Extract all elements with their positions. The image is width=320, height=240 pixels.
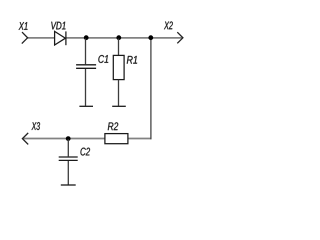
label X1 xyxy=(19,22,28,30)
label VD1 xyxy=(51,22,65,30)
diode VD1 xyxy=(55,31,66,45)
node junction dot C (riser tap) xyxy=(148,35,153,40)
wire: C1 branch upper xyxy=(85,39,87,65)
open end bar under C1 xyxy=(79,105,93,107)
open end bar under R1 xyxy=(112,105,126,107)
resistor R2 xyxy=(105,134,128,144)
wire: C2 branch upper xyxy=(67,139,69,156)
wire: diode cathode to X2 arrow xyxy=(66,37,182,39)
wire: right vertical riser xyxy=(150,38,152,140)
wire: R2 right to corner xyxy=(128,138,151,140)
wire: X1 terminal to diode anode xyxy=(28,37,55,39)
node junction dot B (R1 tap) xyxy=(116,35,121,40)
wire: C1 branch lower xyxy=(85,69,87,106)
capacitor C1 xyxy=(76,65,96,69)
label C1 xyxy=(98,55,108,63)
node junction dot D (C2 tap) xyxy=(66,136,71,141)
label C2 xyxy=(81,148,91,156)
terminal X1 xyxy=(22,32,28,44)
terminal X3 arrow xyxy=(22,133,28,145)
wire: bottom row X3 to R2 left xyxy=(22,138,105,140)
wire: C2 branch lower xyxy=(67,161,69,185)
capacitor C2 xyxy=(59,157,78,160)
label X3 xyxy=(32,122,41,130)
wire: R1 branch lower xyxy=(118,80,120,106)
label R2 xyxy=(108,122,118,130)
resistor R1 xyxy=(113,55,124,79)
label R1 xyxy=(127,56,137,64)
label X2 xyxy=(164,21,173,29)
wire: R1 branch upper xyxy=(118,39,120,56)
node junction dot A (C1 tap) xyxy=(84,35,89,40)
open end bar under C2 xyxy=(61,184,76,186)
terminal X2 arrow xyxy=(177,32,183,43)
